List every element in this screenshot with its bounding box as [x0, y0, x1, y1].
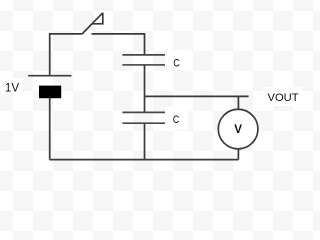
capacitor C1 top plate [122, 54, 165, 56]
svg-text:V: V [234, 123, 242, 136]
label background 1V [2, 78, 24, 94]
switch SW1 flag [92, 13, 103, 24]
wire voltmeter bottom stub [237, 149, 239, 160]
wire switch right contact to C1 [92, 34, 145, 55]
wire C2 bottom to bottom rail [144, 123, 146, 159]
label background C2 [165, 107, 188, 130]
svg-text:VOUT: VOUT [268, 92, 299, 104]
svg-text:C: C [173, 114, 180, 126]
label background VOUT [263, 87, 302, 106]
wire battery bottom [49, 98, 51, 160]
battery V1 thick plate [39, 86, 61, 99]
capacitor C1 bottom plate [122, 64, 165, 66]
label background C1 [165, 50, 190, 72]
capacitor C2 bottom plate [122, 122, 165, 124]
svg-text:1V: 1V [5, 82, 19, 95]
wire battery top to switch left contact [50, 34, 82, 76]
capacitor C2 top plate [122, 111, 165, 113]
bottom wire rail [50, 159, 239, 161]
voltmeter VM1 body [218, 109, 258, 149]
battery V1 thin plate [28, 75, 71, 77]
switch SW1 lever [82, 13, 103, 34]
wire stub down to voltmeter top [237, 96, 239, 109]
wire C1 bottom to C2 top [144, 65, 146, 113]
wire mid node to voltmeter and tip [145, 95, 249, 97]
svg-text:C: C [173, 58, 180, 70]
